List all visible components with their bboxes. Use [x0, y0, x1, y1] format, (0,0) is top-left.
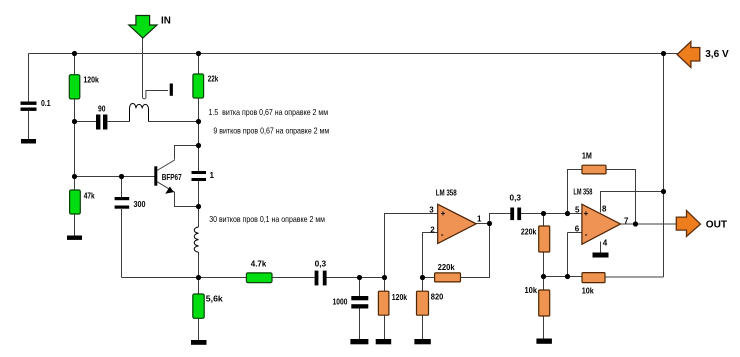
svg-text:1M: 1M: [582, 152, 592, 161]
wire long supply vertical right: [605, 54, 664, 278]
stub capacitor plate near coil tap: [170, 84, 173, 96]
resistor 10k vertical (orange): [525, 286, 550, 316]
resistor 4.7k (green horizontal): [246, 259, 272, 282]
svg-text:1: 1: [210, 171, 215, 180]
coil L2 30 turns vertical: [194, 227, 198, 252]
wire 220k vertical stubs: [543, 214, 545, 277]
coil L1 9 turns horizontal: [130, 104, 149, 122]
wire base row: [75, 176, 155, 178]
ground under pin4: [593, 253, 609, 258]
node rail-22k: [196, 51, 201, 56]
node cap-220k: [541, 211, 546, 216]
node base-300: [119, 174, 124, 179]
node base-left: [72, 174, 77, 179]
wire 120k column: [74, 54, 76, 236]
svg-text:5: 5: [575, 206, 580, 215]
resistor 10k horizontal (orange): [582, 273, 605, 296]
svg-text:1: 1: [477, 214, 482, 223]
ground under 1000: [350, 339, 368, 344]
node divider-left: [541, 274, 546, 279]
svg-text:-: -: [585, 230, 588, 239]
svg-text:2: 2: [430, 225, 435, 234]
svg-text:3: 3: [429, 206, 434, 215]
wire collector link: [175, 146, 199, 160]
svg-text:6: 6: [575, 225, 580, 234]
ground under 0.1: [21, 139, 36, 144]
node pin8-supply: [661, 189, 666, 194]
capacitor 0.1: [21, 99, 51, 139]
svg-text:30 витков пров 0,1 на оправке: 30 витков пров 0,1 на оправке 2 мм: [209, 214, 325, 224]
wire 5,6k column: [198, 278, 200, 341]
svg-text:+: +: [584, 209, 589, 218]
resistor 220k vertical (orange): [521, 226, 550, 252]
transistor Q1 BFP67: [154, 160, 182, 194]
svg-text:10k: 10k: [582, 286, 594, 295]
wire 1000 cap stubs: [359, 278, 361, 340]
svg-text:OUT: OUT: [706, 219, 728, 231]
svg-text:4: 4: [603, 238, 608, 247]
resistor 820 (orange): [417, 291, 444, 315]
capacitor 300: [115, 197, 146, 209]
wire 220k feedback left: [423, 277, 435, 279]
svg-text:+: +: [441, 209, 446, 218]
svg-text:IN: IN: [161, 16, 171, 27]
IN arrow: [129, 16, 171, 39]
resistor 22k (green): [193, 74, 219, 98]
node 120k-pin3: [382, 275, 387, 280]
svg-text:0,3: 0,3: [315, 259, 327, 268]
resistor 5,6k (green): [193, 294, 224, 318]
svg-text:10k: 10k: [525, 286, 538, 295]
svg-text:0.1: 0.1: [41, 99, 51, 108]
svg-text:1.5 витка пров 0,67 на оправк: 1.5 витка пров 0,67 на оправке 2 мм: [209, 107, 329, 117]
wire opamp2 output to OUT: [621, 223, 677, 225]
svg-text:LM 358: LM 358: [436, 189, 457, 198]
wire 22k column: [198, 54, 200, 146]
node 1000cap: [357, 275, 362, 280]
svg-text:22k: 22k: [208, 75, 219, 84]
svg-text:820: 820: [431, 292, 444, 301]
svg-text:47k: 47k: [84, 191, 95, 200]
node coil-22k: [196, 119, 201, 124]
OUT arrow: [676, 211, 727, 237]
wire output down to 220k feedback: [461, 224, 490, 278]
ground under 5,6k: [191, 340, 207, 345]
op-amp U2 LM358: [573, 187, 629, 247]
capacitor 90: [96, 105, 107, 130]
IN input wire with coil tap hook: [143, 38, 169, 99]
wire 820 stubs: [422, 278, 424, 340]
capacitor 1000: [333, 296, 369, 309]
svg-text:8: 8: [602, 205, 607, 214]
svg-text:3,6 V: 3,6 V: [705, 48, 729, 60]
svg-text:120k: 120k: [392, 293, 408, 302]
svg-text:7: 7: [624, 216, 629, 225]
svg-text:BFP67: BFP67: [162, 173, 182, 182]
wire 10k vertical stubs: [543, 277, 545, 339]
capacitor C3 1: [192, 171, 215, 181]
ground under 120k orange: [376, 339, 392, 344]
svg-text:220k: 220k: [521, 227, 537, 236]
svg-text:1000: 1000: [333, 297, 348, 306]
wire top supply rail: [29, 53, 678, 55]
wire pin6 riser: [568, 233, 582, 277]
wire cap 0,3 to pin5: [521, 213, 582, 215]
node collector: [196, 143, 201, 148]
node rail-120k: [72, 51, 77, 56]
node 820-pin2: [420, 275, 425, 280]
svg-text:5,6k: 5,6k: [206, 294, 224, 303]
wire pin2 riser: [423, 233, 438, 278]
svg-text:90: 90: [98, 105, 106, 114]
resistor 120k (orange): [378, 291, 407, 315]
svg-text:220k: 220k: [438, 263, 456, 272]
svg-text:0,3: 0,3: [510, 194, 522, 203]
node 1M-out: [633, 221, 638, 226]
resistor 1M (orange horizontal): [582, 152, 606, 174]
node pin5-1M: [565, 211, 570, 216]
resistor 220k feedback (orange horizontal): [435, 263, 461, 282]
wire emitter link: [175, 192, 199, 207]
wire left column to C1: [28, 54, 30, 103]
node rail-supply: [661, 51, 666, 56]
node bottom-main: [196, 275, 201, 280]
node emitter: [196, 204, 201, 209]
svg-text:LM 358: LM 358: [573, 187, 592, 196]
node 90cap: [72, 119, 77, 124]
ground under 10k vertical: [536, 339, 552, 344]
wire pin3 riser: [385, 214, 438, 278]
node opamp1-out: [487, 221, 492, 226]
wire C2 column 300: [121, 177, 123, 278]
wire opamp1 output: [476, 223, 490, 225]
wire 120k-orange stubs: [384, 278, 386, 340]
wire 10k horizontal left: [568, 276, 583, 278]
resistor 47k (green): [70, 190, 96, 214]
resistor 120k (green): [69, 75, 99, 99]
node divider-right: [565, 274, 570, 279]
wire pin8 supply link: [601, 192, 664, 213]
wire output up to cap 0,3: [490, 214, 511, 224]
wire coil right to node: [149, 121, 199, 123]
wire bottom row stage1: [122, 277, 385, 279]
wire 1M left riser: [568, 170, 582, 214]
capacitor 0,3 stage1: [315, 259, 327, 285]
capacitor 0,3 stage2: [510, 194, 522, 220]
ground under 820: [414, 339, 430, 344]
wire pin4 ground link: [600, 242, 602, 253]
svg-text:9 витков пров 0,67 на оправке: 9 витков пров 0,67 на оправке 2 мм: [213, 126, 329, 136]
svg-text:120k: 120k: [83, 75, 99, 84]
svg-text:4.7k: 4.7k: [251, 259, 267, 268]
op-amp U1 LM358: [429, 189, 482, 244]
wire 90-cap row: [75, 121, 130, 123]
wire divider row: [544, 276, 582, 278]
svg-text:-: -: [441, 230, 444, 239]
svg-text:300: 300: [134, 200, 146, 209]
power arrow 3,6 V: [677, 42, 729, 68]
wire 1M right riser: [606, 170, 636, 225]
ground under 47k: [67, 236, 82, 240]
wire main emitter column: [198, 146, 200, 278]
